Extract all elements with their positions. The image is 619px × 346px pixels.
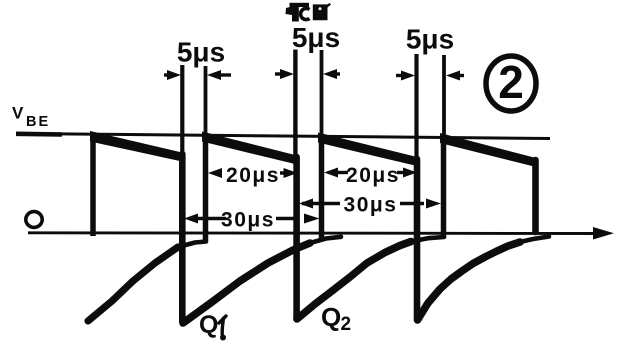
zero axis arrowhead: [593, 227, 614, 240]
svg-text:20μs: 20μs: [226, 164, 280, 187]
5us dimension 3: left arrow: [396, 74, 404, 77]
svg-text:Q: Q: [321, 302, 341, 332]
pulse 1 top slope: [90, 131, 182, 162]
extension line above fall 3: [414, 54, 418, 158]
V_BE level line: [16, 134, 550, 139]
recovery curve (last, partial): [418, 242, 521, 320]
pulse 3 top slope: [318, 133, 417, 167]
5us dimension 3: right arrow: [457, 74, 464, 77]
recovery curve tail (before pulse 2): [88, 247, 178, 321]
pulse 2 falling edge: [293, 157, 300, 319]
svg-text:BE: BE: [26, 114, 50, 130]
pulse 2 top slope: [202, 132, 297, 165]
5us dimension 1: left arrow: [164, 73, 172, 76]
30us dimension 2: left arrow: [302, 202, 340, 205]
recovery curve Q2: [297, 242, 411, 320]
5us dimension 2: left arrow: [275, 72, 283, 75]
circled figure number 2: circle: [486, 56, 536, 111]
label Q1: [199, 311, 226, 341]
svg-text:Q: Q: [199, 311, 218, 339]
label Q2: [321, 302, 351, 335]
20us dimension 2: right arrow: [397, 171, 406, 174]
zero axis line: [28, 231, 599, 235]
svg-text:30μs: 30μs: [344, 194, 398, 217]
svg-text:2: 2: [341, 314, 352, 335]
pulse 4 top slope: [440, 133, 536, 167]
extension line above rise 4: [442, 55, 446, 137]
20us dimension 1: left arrowhead: [208, 168, 222, 178]
30us dimension 1: right arrow: [276, 217, 296, 220]
svg-text:30μs: 30μs: [221, 209, 275, 232]
pulse 4 rising edge: [441, 137, 447, 238]
extension line above rise 3: [320, 50, 324, 137]
extension line above rise 2: [204, 66, 208, 136]
extension line above fall 1: [180, 65, 184, 152]
label V_BE: [12, 104, 50, 131]
20us dimension 1: right arrow: [280, 171, 287, 174]
pulse 4 falling edge: [532, 160, 539, 232]
extension line above fall 2: [293, 50, 297, 157]
svg-text:2: 2: [498, 56, 524, 108]
svg-text:V: V: [12, 104, 24, 123]
V_BE level line thick start: [16, 132, 62, 137]
5us dimension 2: right arrow: [333, 72, 340, 75]
svg-text:20μs: 20μs: [346, 164, 400, 187]
pulse 1 rising edge: [90, 136, 96, 236]
5us dimension 1: right arrow: [218, 73, 231, 76]
svg-text:5μs: 5μs: [292, 22, 340, 53]
recovery curve Q1: [183, 243, 310, 323]
pulse 3 falling edge: [414, 159, 421, 319]
pulse 2 rising edge: [203, 136, 209, 241]
pulse 3 rising edge: [319, 137, 325, 239]
pulse 1 falling edge: [179, 154, 186, 322]
svg-text:5μs: 5μs: [177, 37, 225, 68]
svg-text:5μs: 5μs: [406, 24, 454, 55]
30us dimension 2: right arrow: [400, 202, 424, 205]
30us dimension 1: left arrow: [195, 217, 226, 220]
label O (zero): [26, 212, 42, 228]
smudged mark above 5us dimension 2: [286, 3, 332, 22]
20us dimension 2: left arrow: [335, 171, 348, 174]
